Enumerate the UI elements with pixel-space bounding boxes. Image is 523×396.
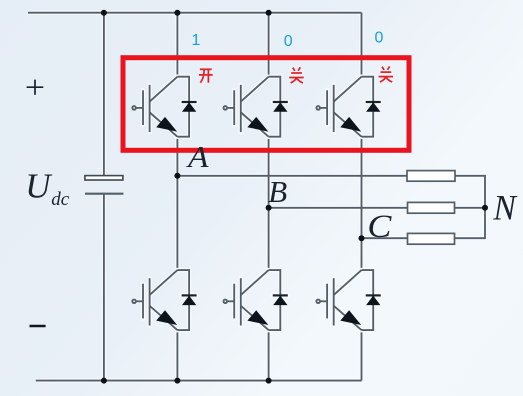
svg-text:1: 1	[192, 32, 201, 49]
svg-text:0: 0	[284, 33, 293, 50]
svg-text:0: 0	[375, 30, 384, 47]
svg-text:B: B	[268, 174, 287, 209]
svg-text:U: U	[25, 166, 53, 205]
svg-text:dc: dc	[51, 189, 70, 210]
svg-text:A: A	[186, 139, 210, 174]
svg-text:C: C	[367, 209, 392, 245]
svg-text:N: N	[492, 188, 518, 228]
